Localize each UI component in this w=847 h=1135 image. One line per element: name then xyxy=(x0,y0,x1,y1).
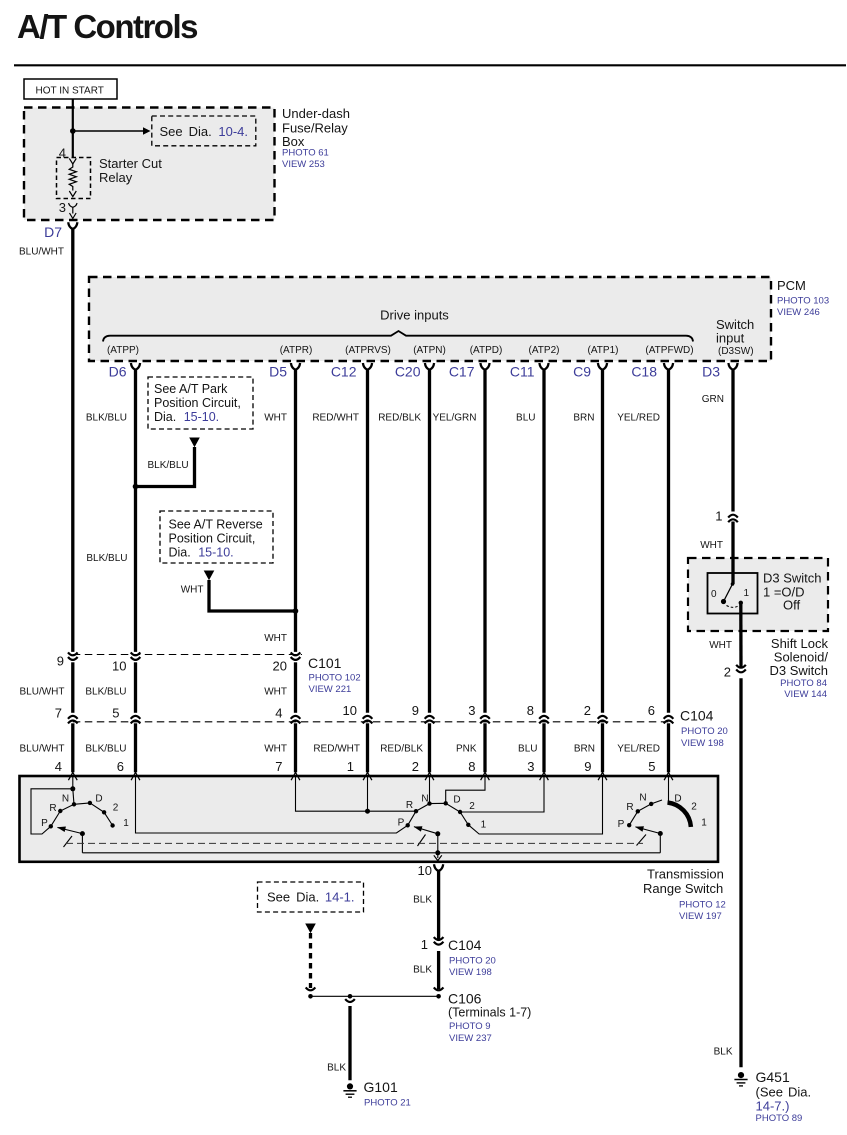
svg-text:9: 9 xyxy=(57,654,64,669)
wire D3 from PCM down xyxy=(731,370,734,512)
svg-text:WHT: WHT xyxy=(181,585,204,596)
wire D5 down to C101 xyxy=(294,370,297,652)
svg-text:D3: D3 xyxy=(702,364,720,380)
svg-text:C12: C12 xyxy=(331,364,357,380)
svg-text:8: 8 xyxy=(527,703,534,718)
right wiper xyxy=(636,827,661,834)
connector C11 symbol xyxy=(539,363,548,370)
svg-text:2: 2 xyxy=(469,801,475,812)
svg-text:RED/BLK: RED/BLK xyxy=(378,413,421,424)
term10 exit arrow xyxy=(434,855,442,860)
wire term9 inside xyxy=(468,776,602,834)
middle wiper stem xyxy=(437,834,439,853)
svg-text:BLU: BLU xyxy=(518,744,537,755)
svg-text:14-7.): 14-7.) xyxy=(756,1099,790,1114)
HOT IN START label box xyxy=(24,79,117,99)
svg-text:VIEW 237: VIEW 237 xyxy=(449,1033,492,1044)
svg-text:C106: C106 xyxy=(448,991,482,1007)
svg-text:R: R xyxy=(406,800,413,811)
svg-text:RED/WHT: RED/WHT xyxy=(312,413,359,424)
right section contact dots xyxy=(627,823,631,827)
wire C17 down to C104 xyxy=(483,370,486,713)
svg-text:BLU/WHT: BLU/WHT xyxy=(20,687,65,698)
wire C11 down to C104 xyxy=(542,370,545,713)
wire D7 down to C101 xyxy=(71,229,74,652)
svg-text:9: 9 xyxy=(584,759,591,774)
svg-text:N: N xyxy=(639,793,646,804)
svg-text:(ATP2): (ATP2) xyxy=(529,345,560,356)
ground G451 xyxy=(734,1072,747,1086)
linkage tick left xyxy=(64,836,73,847)
connector C9 symbol xyxy=(598,363,607,370)
svg-text:A/T Controls: A/T Controls xyxy=(17,8,197,45)
wire C18 down to C104 xyxy=(667,370,670,713)
svg-text:10: 10 xyxy=(418,863,432,878)
wire branch park circuit xyxy=(136,447,195,487)
PCM box xyxy=(89,277,771,361)
svg-text:2: 2 xyxy=(691,802,697,813)
relay lower pin Y and arrow xyxy=(69,203,77,207)
svg-text:WHT: WHT xyxy=(264,744,287,755)
node junction to See Dia arrow xyxy=(70,128,76,134)
left wiper xyxy=(58,828,83,834)
C106 left end symbol xyxy=(306,987,316,990)
right wiper arrowhead xyxy=(634,824,644,832)
wire C9 down to C104 xyxy=(601,370,604,713)
svg-text:WHT: WHT xyxy=(709,640,732,651)
svg-text:WHT: WHT xyxy=(264,413,287,424)
svg-text:BRN: BRN xyxy=(574,744,595,755)
D3 switch pole node xyxy=(731,582,735,586)
connector C18 symbol xyxy=(664,363,673,370)
linkage tick right xyxy=(637,835,647,846)
svg-text:P: P xyxy=(398,818,405,829)
svg-text:SeeDia. 14-1.: SeeDia. 14-1. xyxy=(267,890,355,905)
svg-text:10: 10 xyxy=(112,659,126,674)
svg-text:See A/T Park: See A/T Park xyxy=(154,382,228,396)
wires C104 to TRS box xyxy=(71,723,74,772)
arrow from See Dia 14-1 xyxy=(305,924,316,934)
D3 switch inner box xyxy=(708,573,758,614)
svg-text:Position Circuit,: Position Circuit, xyxy=(169,532,256,546)
wire BLK term10 xyxy=(437,871,440,940)
svg-text:(ATPR): (ATPR) xyxy=(280,345,313,356)
svg-text:Drive inputs: Drive inputs xyxy=(380,308,449,323)
svg-text:BLK/BLU: BLK/BLU xyxy=(86,553,127,564)
wire WHT C101-C104 xyxy=(294,662,297,713)
svg-text:BLK/BLU: BLK/BLU xyxy=(85,744,126,755)
connector C20 symbol xyxy=(425,363,434,370)
wire BLU/WHT C101-C104 xyxy=(71,662,74,713)
svg-text:1: 1 xyxy=(715,509,722,524)
svg-text:N: N xyxy=(421,794,428,805)
svg-text:(ATPD): (ATPD) xyxy=(470,345,503,356)
mechanical dashed line xyxy=(66,842,643,844)
svg-text:7: 7 xyxy=(275,759,282,774)
svg-text:PHOTO 89: PHOTO 89 xyxy=(756,1113,803,1124)
D3 switch contact 1 xyxy=(739,601,743,605)
svg-text:Dia. 15-10.: Dia. 15-10. xyxy=(169,546,234,560)
svg-text:D: D xyxy=(453,795,460,806)
svg-text:BLU: BLU xyxy=(516,413,535,424)
svg-text:Transmission: Transmission xyxy=(647,867,724,882)
svg-text:P: P xyxy=(618,819,625,830)
svg-text:VIEW 198: VIEW 198 xyxy=(449,967,492,978)
wire branch reverse circuit xyxy=(209,580,296,611)
svg-text:BLK/BLU: BLK/BLU xyxy=(86,413,127,424)
svg-text:Under-dash: Under-dash xyxy=(282,106,350,121)
svg-text:RED/WHT: RED/WHT xyxy=(313,744,360,755)
wire from D3 switch down xyxy=(739,603,743,668)
svg-text:(ATPP): (ATPP) xyxy=(107,345,139,356)
wire term8 inside xyxy=(446,776,485,803)
svg-text:D3 Switch: D3 Switch xyxy=(769,663,828,678)
svg-text:Starter Cut: Starter Cut xyxy=(99,156,162,171)
dashed wire from 14-1 xyxy=(309,933,312,988)
middle wiper xyxy=(414,827,438,834)
left wiper stem xyxy=(81,834,83,853)
svg-text:1: 1 xyxy=(481,820,487,831)
svg-text:(D3SW): (D3SW) xyxy=(718,346,754,357)
bus term4 to P contact xyxy=(31,789,73,834)
svg-text:D3 Switch: D3 Switch xyxy=(763,571,822,586)
left section contact dots xyxy=(70,786,75,791)
right switch arc P-R-N xyxy=(629,800,662,825)
See A/T Park Position Circuit box xyxy=(148,377,253,429)
TRS entry arrows xyxy=(68,772,77,780)
C104 lower connector symbol xyxy=(434,937,444,940)
svg-text:5: 5 xyxy=(112,706,119,721)
See Dia. 10-4. reference box xyxy=(152,116,256,146)
svg-text:2: 2 xyxy=(724,665,731,680)
See Dia. 14-1 box xyxy=(258,882,364,912)
right wiper stem xyxy=(659,834,661,853)
linkage tick middle xyxy=(418,835,426,847)
middle section contact dots xyxy=(406,823,410,827)
svg-text:VIEW 221: VIEW 221 xyxy=(309,684,352,695)
svg-text:PHOTO 102: PHOTO 102 xyxy=(309,673,361,684)
svg-text:Dia. 15-10.: Dia. 15-10. xyxy=(154,410,219,424)
svg-text:C11: C11 xyxy=(510,364,535,380)
svg-text:2: 2 xyxy=(584,703,591,718)
svg-text:7: 7 xyxy=(55,706,62,721)
wire term6 inside xyxy=(136,776,408,833)
arrow from reverse circuit xyxy=(204,571,215,581)
wire BLK below C104 xyxy=(437,951,440,989)
svg-text:C104: C104 xyxy=(448,937,482,953)
svg-text:C18: C18 xyxy=(631,364,657,380)
under-dash fuse/relay box xyxy=(24,108,275,221)
svg-text:PHOTO 103: PHOTO 103 xyxy=(777,296,829,307)
D3 switch lever xyxy=(724,584,733,602)
middle switch arc xyxy=(408,803,469,825)
connector D6 symbol xyxy=(131,363,140,370)
relay pin arrow top xyxy=(69,158,76,164)
svg-text:WHT: WHT xyxy=(264,687,287,698)
svg-text:P: P xyxy=(41,818,48,829)
D3 switch travel arc xyxy=(727,606,739,608)
svg-text:WHT: WHT xyxy=(700,540,723,551)
svg-text:Relay: Relay xyxy=(99,170,133,185)
svg-text:input: input xyxy=(716,331,745,346)
svg-text:(ATPFWD): (ATPFWD) xyxy=(645,345,693,356)
svg-text:PHOTO 12: PHOTO 12 xyxy=(679,900,726,911)
svg-text:4: 4 xyxy=(55,759,62,774)
svg-text:PCM: PCM xyxy=(777,278,806,293)
C104 pin symbols xyxy=(68,716,78,719)
svg-text:RED/BLK: RED/BLK xyxy=(380,744,423,755)
svg-text:R: R xyxy=(626,802,633,813)
svg-text:N: N xyxy=(62,794,69,805)
svg-text:8: 8 xyxy=(468,759,475,774)
svg-text:PHOTO 84: PHOTO 84 xyxy=(780,678,827,689)
connector C12 symbol xyxy=(363,363,372,370)
svg-text:1: 1 xyxy=(123,818,129,829)
transmission range switch box xyxy=(20,776,719,862)
See A/T Reverse Position Circuit box xyxy=(160,511,273,563)
wire BLK to G451 xyxy=(739,678,742,1067)
C101 pin 9 symbol xyxy=(68,652,78,655)
svg-text:(ATPN): (ATPN) xyxy=(413,345,446,356)
connector C17 symbol xyxy=(480,363,489,370)
node junction on D6 wire xyxy=(133,484,139,490)
svg-text:(ATP1): (ATP1) xyxy=(588,345,619,356)
svg-text:C17: C17 xyxy=(449,364,475,380)
svg-text:C104: C104 xyxy=(680,708,714,724)
wire WHT inside D3 switch box xyxy=(731,557,734,584)
C106 middle tap xyxy=(348,994,353,999)
svg-text:BRN: BRN xyxy=(573,413,594,424)
svg-text:See A/T Reverse: See A/T Reverse xyxy=(169,518,263,532)
node junction on D5 wire xyxy=(293,608,299,614)
right thick contact arc D-2-1 xyxy=(668,803,691,827)
relay pin arrow bottom xyxy=(69,191,76,197)
wire C12 down to C104 xyxy=(366,370,369,713)
wire term3 inside xyxy=(460,776,544,812)
wire BLK to G101 xyxy=(348,1006,351,1080)
svg-text:VIEW 144: VIEW 144 xyxy=(784,689,827,700)
C101 pin 20 symbol xyxy=(291,652,301,655)
D3 pin 1 connector symbol xyxy=(728,515,738,518)
svg-text:PNK: PNK xyxy=(456,744,477,755)
svg-text:BLK: BLK xyxy=(413,965,432,976)
svg-text:D7: D7 xyxy=(44,224,62,240)
svg-text:SeeDia. 10-4.: SeeDia. 10-4. xyxy=(160,124,249,139)
connector C101 dashed line xyxy=(73,654,302,656)
svg-text:9: 9 xyxy=(412,703,419,718)
svg-text:0: 0 xyxy=(711,589,717,600)
wire BLK/BLU C101-C104 xyxy=(134,662,137,713)
svg-text:Range Switch: Range Switch xyxy=(643,881,723,896)
wire term4 to N contact xyxy=(73,789,74,805)
middle wiper arrowhead xyxy=(413,824,423,832)
connector term10 exit symbol xyxy=(434,864,443,871)
connector D5 symbol xyxy=(291,363,300,370)
svg-text:G101: G101 xyxy=(364,1079,398,1095)
svg-text:BLU/WHT: BLU/WHT xyxy=(19,247,64,258)
svg-text:(ATPRVS): (ATPRVS) xyxy=(345,345,391,356)
relay coil xyxy=(69,164,76,191)
D3 switch dashed box xyxy=(688,558,828,631)
svg-text:VIEW 197: VIEW 197 xyxy=(679,911,722,922)
svg-text:10: 10 xyxy=(343,703,357,718)
svg-text:PHOTO 21: PHOTO 21 xyxy=(364,1098,411,1109)
arrow from park circuit xyxy=(189,438,200,448)
svg-text:YEL/RED: YEL/RED xyxy=(617,413,660,424)
svg-text:D: D xyxy=(674,794,681,805)
svg-text:VIEW 246: VIEW 246 xyxy=(777,307,820,318)
C101 pin 10 symbol xyxy=(131,652,141,655)
C106 joint line xyxy=(311,995,439,997)
svg-text:5: 5 xyxy=(648,759,655,774)
left switch arc xyxy=(51,803,113,826)
svg-text:R: R xyxy=(49,803,56,814)
connector D3 symbol xyxy=(728,363,737,370)
ground G101 xyxy=(343,1083,356,1097)
wire from HOT IN START down xyxy=(72,99,74,158)
wire term4 inside xyxy=(72,776,74,789)
wire D6 down to C101 xyxy=(134,370,137,652)
svg-text:PHOTO 20: PHOTO 20 xyxy=(449,956,496,967)
svg-text:GRN: GRN xyxy=(702,394,724,405)
svg-text:(Terminals 1-7): (Terminals 1-7) xyxy=(448,1006,531,1020)
connector D7 symbol xyxy=(68,222,77,229)
title rule xyxy=(14,64,846,66)
svg-text:2: 2 xyxy=(412,759,419,774)
wire term2 inside xyxy=(429,776,431,804)
svg-text:Position Circuit,: Position Circuit, xyxy=(154,396,241,410)
svg-text:C101: C101 xyxy=(308,655,342,671)
Drive inputs bracket xyxy=(103,331,693,342)
svg-text:C20: C20 xyxy=(395,364,421,380)
svg-text:YEL/RED: YEL/RED xyxy=(617,744,660,755)
wire term1 inside xyxy=(367,776,369,811)
svg-text:YEL/GRN: YEL/GRN xyxy=(433,413,477,424)
svg-text:BLK/BLU: BLK/BLU xyxy=(148,460,189,471)
wire term7 inside xyxy=(296,776,417,811)
svg-text:D5: D5 xyxy=(269,364,287,380)
wire term10 drop xyxy=(437,853,439,858)
svg-text:C9: C9 xyxy=(573,364,591,380)
svg-text:D6: D6 xyxy=(109,364,127,380)
svg-text:VIEW 253: VIEW 253 xyxy=(282,159,325,170)
svg-text:BLK/BLU: BLK/BLU xyxy=(85,687,126,698)
svg-text:6: 6 xyxy=(648,703,655,718)
svg-text:G451: G451 xyxy=(756,1069,790,1085)
svg-text:20: 20 xyxy=(273,659,287,674)
svg-text:6: 6 xyxy=(117,759,124,774)
svg-text:2: 2 xyxy=(113,803,119,814)
shift lock pin 2 connector symbol xyxy=(736,665,746,668)
svg-text:PHOTO 9: PHOTO 9 xyxy=(449,1021,491,1032)
svg-text:BLU/WHT: BLU/WHT xyxy=(20,744,65,755)
svg-text:BLK: BLK xyxy=(413,895,432,906)
svg-text:Off: Off xyxy=(783,598,800,613)
C106 right end symbol xyxy=(434,987,444,990)
wire WHT into D3 switch xyxy=(731,522,734,585)
svg-text:1: 1 xyxy=(421,937,428,952)
wire term5 inside xyxy=(668,776,670,803)
wiper common bus xyxy=(82,852,660,854)
svg-text:BLK: BLK xyxy=(714,1047,733,1058)
wire arrow to See Dia. 10-4 xyxy=(73,130,143,132)
svg-text:D: D xyxy=(95,794,102,805)
starter cut relay box xyxy=(57,158,91,199)
left wiper arrowhead xyxy=(56,825,66,832)
svg-text:PHOTO 20: PHOTO 20 xyxy=(681,726,728,737)
svg-text:BLK: BLK xyxy=(327,1063,346,1074)
svg-text:4: 4 xyxy=(275,706,282,721)
svg-text:3: 3 xyxy=(59,200,66,215)
svg-text:3: 3 xyxy=(527,759,534,774)
svg-text:1: 1 xyxy=(701,818,707,829)
wire C20 down to C104 xyxy=(428,370,431,713)
svg-text:WHT: WHT xyxy=(264,633,287,644)
svg-text:HOT IN START: HOT IN START xyxy=(36,85,104,96)
svg-text:1: 1 xyxy=(744,588,750,599)
connector C104 dashed line xyxy=(73,721,672,723)
svg-text:PHOTO 61: PHOTO 61 xyxy=(282,148,329,159)
svg-text:3: 3 xyxy=(468,703,475,718)
svg-text:VIEW 198: VIEW 198 xyxy=(681,738,724,749)
svg-text:1: 1 xyxy=(347,759,354,774)
